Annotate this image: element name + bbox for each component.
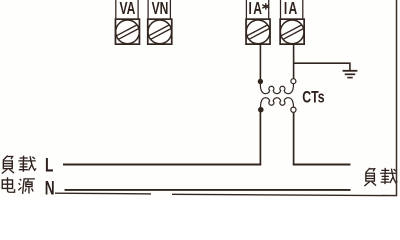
label 负载 (right, drawn glyphs) — [364, 168, 397, 186]
terminal IA* — [246, 0, 270, 44]
terminal VN — [148, 0, 172, 44]
wire branch to ground — [294, 63, 350, 70]
label 电源 (drawn glyphs) — [2, 177, 35, 194]
载 — [18, 156, 36, 172]
负 — [3, 156, 12, 161]
svg-text:VA: VA — [119, 0, 135, 19]
terminal IA — [280, 0, 304, 44]
CT terminal circle (bottom right, open) — [291, 107, 296, 112]
CT terminal circle (top right, open) — [291, 79, 296, 84]
svg-text:IA: IA — [284, 0, 299, 19]
ground — [343, 71, 358, 78]
svg-text:L: L — [45, 154, 53, 176]
terminal VA — [115, 0, 139, 44]
电 — [8, 177, 15, 192]
CT primary winding (bottom) — [261, 98, 294, 110]
CT polarity dot (top left, filled) — [258, 79, 263, 84]
CT secondary winding (top) — [260, 82, 293, 94]
N line — [65, 189, 351, 191]
wire CT bottom-right down to L line — [293, 112, 295, 165]
L line left segment — [63, 164, 261, 166]
svg-text:CTs: CTs — [302, 89, 324, 107]
svg-text:N: N — [45, 177, 55, 197]
svg-text:VN: VN — [152, 0, 169, 19]
svg-text:IA: IA — [249, 0, 264, 19]
asterisk of IA* — [262, 3, 269, 9]
right border (scan artifact) — [396, 0, 398, 196]
wire IA terminal down to CT — [293, 45, 295, 79]
L line right segment — [293, 164, 351, 166]
源 — [18, 179, 35, 194]
label 负载 (left, drawn glyphs) — [2, 156, 36, 174]
wire IA* terminal to CT primary dot — [259, 45, 261, 80]
bottom rule right segment (scan artifact) — [172, 194, 397, 195]
wire CT bottom-left down to L line — [259, 112, 261, 165]
CT polarity dot (bottom left, filled) — [258, 107, 264, 113]
bottom rule left segment (scan artifact) — [55, 192, 151, 195]
